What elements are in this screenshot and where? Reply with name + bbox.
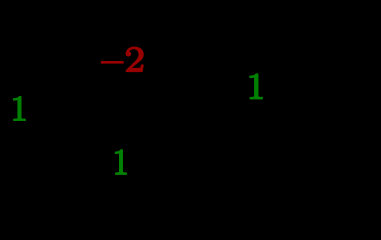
green label "1" (right) — [249, 73, 263, 99]
red minus sign of "-2" — [101, 61, 124, 64]
red digit "2" of "-2" — [126, 47, 144, 73]
green label "1" (middle) — [115, 149, 127, 175]
green label "1" (left) — [13, 96, 26, 121]
